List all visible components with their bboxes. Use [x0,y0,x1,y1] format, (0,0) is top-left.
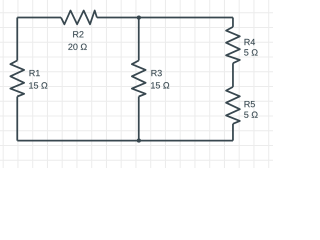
wire between R4 and R5 [232,63,234,87]
label R3 value 15 Ω [151,82,169,88]
wire middle branch upper lead [138,18,140,61]
label R1 [30,70,40,76]
resistor R2 [61,11,97,25]
label R3 [151,70,161,76]
label R1 value 15 Ω [29,82,47,88]
resistor R1 [10,61,24,97]
wire R5 to bottom-right corner [232,124,234,141]
label R4 [245,39,256,45]
wire top-left segment (top-left corner to R2) [17,17,61,19]
label R5 [245,101,255,107]
wire bottom-left segment (node B to bottom-left corner) [17,140,139,142]
wire bottom-right segment (corner to node B) [139,140,233,142]
wire R2 to node A [97,17,139,19]
wire right branch upper lead [232,18,234,27]
label R5 value 5 Ω [244,112,257,118]
label R4 value 5 Ω [244,49,257,55]
node A (top junction) [137,16,141,20]
wire node A to top-right corner [139,17,233,19]
node B (bottom junction) [137,139,141,143]
wire middle branch lower lead [138,97,140,141]
wire left branch upper lead [16,18,18,141]
resistor R5 [226,87,240,124]
label R2 value 20 Ω [68,44,86,50]
resistor R3 [132,61,146,97]
label R2 [73,31,83,37]
resistor R4 [226,27,240,63]
